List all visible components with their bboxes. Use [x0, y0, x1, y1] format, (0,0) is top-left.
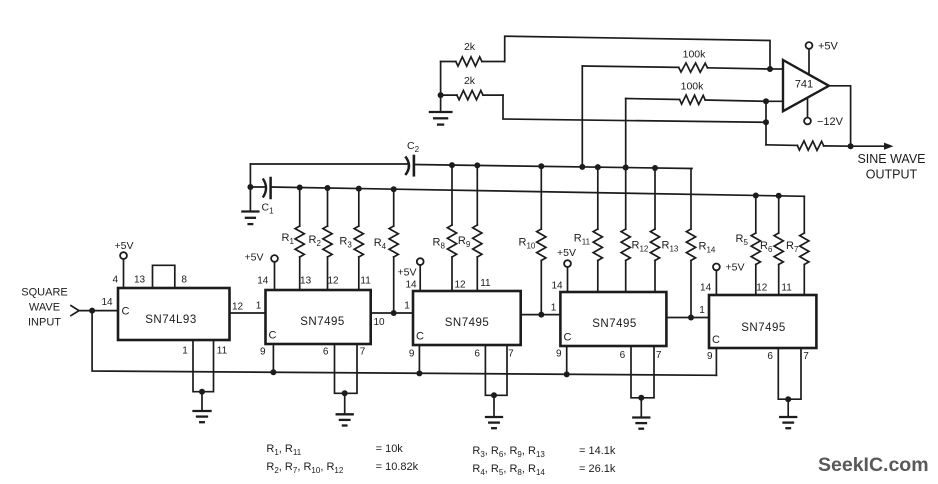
ground below C1	[242, 187, 258, 224]
svg-text:R1: R1	[282, 232, 295, 246]
label pin 7 U4	[656, 350, 662, 361]
label pin 1 U5	[699, 305, 705, 316]
wire U3 pin 9	[418, 345, 420, 373]
watermark SeekIC.com	[818, 454, 929, 476]
wire clock feedback bus	[92, 311, 716, 376]
label pin 1 bottom U1	[182, 346, 188, 357]
svg-text:SN7495: SN7495	[592, 318, 637, 330]
svg-text:R9: R9	[458, 235, 471, 249]
label pin 14 U4	[551, 281, 563, 292]
wire output arrow	[851, 143, 894, 150]
node junction U4 pin 9	[564, 371, 570, 377]
pins 6,7 of U4 to ground	[631, 346, 654, 398]
svg-text:+5V: +5V	[818, 41, 839, 53]
wire U2 pin 9	[272, 344, 274, 372]
svg-text:6: 6	[767, 351, 773, 362]
input arrow	[71, 306, 79, 316]
supply +5V of U3	[398, 258, 424, 291]
svg-text:1: 1	[182, 346, 188, 357]
label pin 9 U3	[409, 349, 415, 360]
IC U2 SN7495	[266, 290, 371, 344]
wire U3 right to U4 pin 1	[521, 314, 561, 316]
label R13	[662, 240, 679, 254]
svg-text:C2: C2	[407, 140, 420, 154]
svg-text:R14: R14	[699, 241, 716, 255]
node junction of 2k resistors and ground	[438, 92, 444, 98]
label pin 11 bottom U1	[217, 346, 228, 357]
label pin 8 U1	[181, 275, 187, 286]
label pin 11 U5	[781, 282, 792, 293]
svg-text:WAVE: WAVE	[29, 302, 60, 314]
svg-text:INPUT: INPUT	[28, 317, 61, 329]
label R4	[374, 237, 387, 251]
IC U3 SN7495	[413, 291, 521, 345]
label pin 12 U1	[232, 302, 244, 313]
pins 6,7 of U2 to ground	[335, 344, 358, 393]
ground below 2k node	[430, 95, 452, 125]
label pin 6 U2	[323, 347, 329, 358]
resistor R1	[295, 185, 304, 291]
wire C1 bus	[271, 187, 805, 196]
resistor 2k (top)	[441, 57, 505, 66]
svg-text:C1: C1	[262, 202, 275, 216]
svg-text:SQUARE: SQUARE	[21, 287, 67, 299]
resistor 100k (top)	[582, 63, 770, 72]
label SINE WAVE OUTPUT	[857, 152, 925, 182]
svg-text:−12V: −12V	[817, 116, 844, 128]
node junction 2k wire on inverting branch	[763, 119, 769, 125]
svg-text:2k: 2k	[464, 75, 476, 87]
svg-text:= 14.1k: = 14.1k	[579, 445, 616, 457]
svg-text:C: C	[122, 306, 130, 318]
ground of U2	[337, 390, 353, 425]
svg-text:+5V: +5V	[398, 267, 417, 279]
label pin 13 U2	[300, 276, 312, 287]
svg-text:2k: 2k	[464, 41, 476, 53]
resistor R10	[537, 163, 546, 317]
wire U4 pin 9	[566, 346, 568, 374]
ground of U1	[194, 389, 211, 423]
label C1	[262, 202, 275, 216]
svg-text:+5V: +5V	[115, 240, 134, 252]
supply +5V of U2	[245, 252, 278, 291]
svg-text:14: 14	[257, 276, 269, 287]
label C2	[407, 140, 420, 154]
resistor R6	[774, 193, 783, 295]
label pin 9 U5	[707, 351, 713, 362]
wire inverting node vertical	[765, 101, 767, 145]
wire U5 pin 9	[715, 348, 717, 375]
wire left vertical joining 2k resistors	[440, 62, 442, 96]
resistor R9	[473, 162, 482, 291]
label pin 14 U3	[405, 280, 417, 291]
svg-text:= 10.82k: = 10.82k	[376, 461, 419, 473]
label pin 13 U1	[134, 275, 146, 286]
svg-text:SeekIC.com: SeekIC.com	[818, 454, 929, 476]
svg-text:741: 741	[795, 79, 813, 91]
svg-text:R1, R11: R1, R11	[266, 443, 301, 457]
svg-text:= 26.1k: = 26.1k	[579, 463, 616, 475]
label pin 7 U2	[360, 347, 366, 358]
svg-text:R2, R7, R10, R12: R2, R7, R10, R12	[266, 461, 343, 475]
wire op-amp non-inverting input	[770, 68, 783, 70]
ground of U5	[780, 396, 796, 428]
svg-text:7: 7	[360, 347, 366, 358]
wire U4 right to U5 pin 1	[666, 317, 709, 319]
pins 6,7 of U5 to ground	[778, 348, 801, 399]
svg-text:R6: R6	[760, 240, 773, 254]
label pin 6 U3	[474, 349, 480, 360]
svg-text:R8: R8	[433, 237, 446, 251]
wire C2 bus top-left segment	[250, 163, 409, 165]
svg-text:SN7495: SN7495	[741, 322, 786, 334]
label pin 7 U5	[803, 351, 809, 362]
svg-text:R3, R6, R9, R13: R3, R6, R9, R13	[472, 445, 545, 459]
resistor R3	[354, 186, 363, 290]
svg-text:R11: R11	[574, 233, 591, 247]
resistor R13	[650, 165, 659, 292]
svg-text:100k: 100k	[683, 49, 707, 61]
svg-text:4: 4	[113, 275, 119, 286]
resistor R7	[800, 196, 809, 295]
svg-text:10: 10	[373, 317, 385, 328]
label 100k (bottom)	[681, 81, 705, 93]
resistor R5	[751, 193, 760, 296]
label R7	[786, 240, 799, 254]
node junction U2 pin 9	[270, 369, 276, 375]
resistor R14	[686, 169, 695, 321]
svg-text:R5: R5	[736, 233, 749, 247]
svg-text:R2: R2	[309, 234, 322, 248]
label R11	[574, 233, 591, 247]
resistor R8	[447, 162, 456, 291]
pins 6,7 of U3 to ground	[485, 345, 507, 395]
resistor 100k (bottom)	[626, 95, 766, 105]
svg-text:R13: R13	[662, 240, 679, 254]
wire op-amp inverting input	[766, 100, 783, 102]
IC U5 SN7495	[709, 295, 816, 348]
label R1	[282, 232, 295, 246]
svg-text:9: 9	[556, 349, 562, 360]
node junction + input	[767, 66, 773, 72]
svg-text:R12: R12	[632, 240, 649, 254]
capacitor C2	[405, 156, 414, 175]
label pin 1 U2	[256, 301, 262, 312]
svg-text:+5V: +5V	[557, 247, 576, 259]
svg-text:C: C	[564, 332, 572, 344]
label SQUARE WAVE INPUT	[21, 287, 67, 329]
label pin 7 U3	[508, 349, 514, 360]
resistor R11	[593, 164, 602, 292]
label R3	[339, 236, 352, 250]
svg-text:7: 7	[803, 351, 809, 362]
jumper pins 13-8 of U1	[153, 265, 175, 288]
svg-text:9: 9	[707, 351, 713, 362]
label R12	[632, 240, 649, 254]
label 2k (bottom)	[464, 75, 476, 87]
wire bottom 2k to op-amp inverting node	[503, 95, 766, 122]
svg-text:SN74L93: SN74L93	[145, 314, 196, 326]
node junction C1 bus left	[247, 184, 253, 190]
label pin 4 U1	[113, 275, 119, 286]
label 100k (top)	[683, 49, 707, 61]
wire 100k (bottom) left drop to C2 bus	[623, 99, 629, 171]
svg-text:9: 9	[260, 347, 266, 358]
svg-text:C: C	[269, 330, 277, 342]
svg-text:14: 14	[700, 282, 712, 293]
IC U4 SN7495	[560, 292, 666, 346]
capacitor C1	[250, 178, 270, 198]
label R9	[458, 235, 471, 249]
label pin 11 U3	[480, 278, 491, 289]
op-amp U1 741	[783, 60, 829, 111]
svg-text:R10: R10	[519, 237, 536, 251]
wire 100k (top) left drop to C2 bus	[579, 66, 585, 170]
label pin 6 U5	[767, 351, 773, 362]
ground of U3	[486, 392, 502, 428]
label pin 9 U2	[260, 347, 266, 358]
label R14	[699, 241, 716, 255]
svg-text:1: 1	[404, 301, 410, 312]
wire U1 pin 12 to U2 pin 1	[230, 312, 266, 314]
svg-text:6: 6	[474, 349, 480, 360]
wire top 2k to op-amp non-inverting input	[505, 36, 770, 69]
svg-text:SN7495: SN7495	[445, 317, 490, 329]
svg-text:8: 8	[181, 275, 187, 286]
label pin 1 U3	[404, 301, 410, 312]
svg-text:1: 1	[699, 305, 705, 316]
label R5	[736, 233, 749, 247]
svg-text:11: 11	[480, 278, 491, 289]
label pin 12 U2	[327, 276, 339, 287]
label values R3,R6,R9,R13	[472, 445, 615, 459]
svg-text:C: C	[712, 334, 720, 346]
svg-text:C: C	[416, 331, 424, 343]
label values R2,R7,R10,R12	[266, 461, 418, 475]
label R2	[309, 234, 322, 248]
svg-text:R7: R7	[786, 240, 799, 254]
label values R4,R5,R8,R14	[472, 463, 615, 477]
svg-text:6: 6	[620, 350, 626, 361]
label pin 6 U4	[620, 350, 626, 361]
svg-text:13: 13	[300, 276, 312, 287]
label pin 12 U3	[454, 280, 466, 291]
IC U1 SN74L93	[118, 288, 230, 340]
resistor 2k (bottom)	[441, 91, 503, 100]
svg-text:11: 11	[217, 346, 228, 357]
svg-text:11: 11	[360, 276, 371, 287]
label pin 11 U2	[360, 276, 371, 287]
label pin 14 U5	[700, 282, 712, 293]
svg-text:R4, R5, R8, R14: R4, R5, R8, R14	[472, 463, 545, 477]
wire C2 bus left segment	[249, 164, 251, 187]
wire input to U1 pin 14	[79, 310, 118, 312]
node junction output	[848, 143, 854, 149]
wire U2 pin 10 to U3 pin 1	[371, 312, 413, 314]
svg-text:SINE WAVE: SINE WAVE	[857, 152, 925, 166]
supply +5V of U4	[557, 247, 576, 292]
resistor feedback-to-output	[766, 141, 851, 151]
wire op-amp output	[829, 86, 851, 146]
svg-text:12: 12	[232, 302, 244, 313]
svg-text:SN7495: SN7495	[300, 316, 345, 328]
label pin 14 U1	[101, 297, 113, 308]
svg-text:1: 1	[551, 303, 557, 314]
svg-text:7: 7	[656, 350, 662, 361]
svg-text:12: 12	[756, 282, 768, 293]
svg-text:= 10k: = 10k	[376, 443, 404, 455]
svg-text:13: 13	[134, 275, 146, 286]
supply +5V of U1	[115, 240, 134, 288]
wire C2 bus right segment	[414, 165, 692, 169]
svg-text:12: 12	[454, 280, 466, 291]
supply +5V of U5	[713, 262, 744, 296]
label pin 9 U4	[556, 349, 562, 360]
label R10	[519, 237, 536, 251]
label R6	[760, 240, 773, 254]
svg-text:+5V: +5V	[726, 262, 745, 274]
svg-text:6: 6	[323, 347, 329, 358]
svg-text:9: 9	[409, 349, 415, 360]
svg-text:+5V: +5V	[245, 252, 264, 264]
resistor R12	[621, 165, 630, 293]
label values R1,R11	[266, 443, 403, 457]
supply -12V of op-amp	[804, 98, 844, 128]
svg-text:OUTPUT: OUTPUT	[866, 168, 918, 182]
label pin 14 U2	[257, 276, 269, 287]
pins 1,11 of U1 to ground	[193, 340, 214, 392]
resistor R2	[323, 185, 332, 290]
svg-text:14: 14	[551, 281, 563, 292]
svg-text:7: 7	[508, 349, 514, 360]
svg-text:1: 1	[256, 301, 262, 312]
svg-text:14: 14	[101, 297, 113, 308]
node junction U3 pin 9	[416, 370, 422, 376]
svg-text:100k: 100k	[681, 81, 705, 93]
svg-text:R3: R3	[339, 236, 352, 250]
ground of U4	[633, 395, 649, 429]
node junction input	[89, 308, 95, 314]
node junction - input	[763, 98, 769, 104]
svg-text:12: 12	[327, 276, 339, 287]
label pin 12 U5	[756, 282, 768, 293]
label pin 1 U4	[551, 303, 557, 314]
label 2k (top)	[464, 41, 476, 53]
svg-text:R4: R4	[374, 237, 387, 251]
svg-text:14: 14	[405, 280, 417, 291]
label R8	[433, 237, 446, 251]
label pin 10 U2	[373, 317, 385, 328]
supply +5V of op-amp	[806, 41, 839, 75]
resistor R4	[389, 186, 398, 316]
svg-text:11: 11	[781, 282, 792, 293]
